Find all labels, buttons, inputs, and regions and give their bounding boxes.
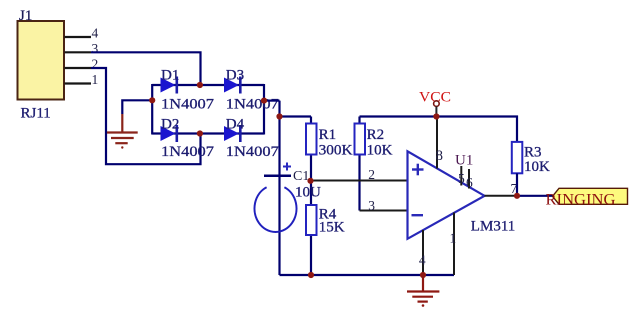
- pin 7 output wire: [485, 181, 553, 196]
- wire R2 bottom to inverting input: [358, 155, 360, 211]
- svg-text:RJ11: RJ11: [21, 106, 51, 122]
- junction node bridge bottom: [197, 130, 203, 136]
- svg-text:10K: 10K: [367, 143, 393, 159]
- pin 4 of U1: [419, 230, 426, 275]
- svg-text:4: 4: [92, 26, 99, 41]
- pin 5 of U1: [458, 166, 465, 186]
- svg-text:10K: 10K: [524, 159, 550, 175]
- junction node R1 top tee: [276, 113, 282, 119]
- capacitor C1: [255, 163, 321, 232]
- svg-text:1: 1: [450, 231, 457, 246]
- op-amp U1 LM311 triangle: [408, 151, 516, 239]
- svg-text:LM311: LM311: [471, 219, 516, 235]
- pin 8 of U1: [436, 117, 444, 169]
- svg-text:D3: D3: [226, 68, 244, 84]
- VCC power port: [419, 90, 451, 117]
- resistor R4: [306, 205, 345, 235]
- wire R3 bottom stub: [516, 173, 518, 196]
- junction node bridge top: [197, 82, 203, 88]
- svg-text:1N4007: 1N4007: [161, 96, 215, 112]
- pin 4 of J1: [65, 26, 99, 41]
- pin 3 of J1: [65, 41, 99, 56]
- svg-text:VCC: VCC: [419, 90, 451, 106]
- wire pin3 net to bridge top: [91, 52, 201, 85]
- wire bridge top row: [152, 84, 264, 86]
- svg-text:D1: D1: [161, 68, 179, 84]
- wire bridge right bus: [263, 84, 265, 135]
- resistor R3: [512, 142, 550, 175]
- wire bridge left bus: [151, 84, 153, 135]
- svg-text:15K: 15K: [319, 219, 345, 235]
- port RINGING flag: [546, 188, 628, 208]
- wire R1 top stub: [310, 117, 312, 124]
- svg-text:D2: D2: [161, 117, 179, 133]
- svg-text:R2: R2: [367, 127, 385, 143]
- resistor R2: [355, 124, 393, 159]
- svg-text:1: 1: [92, 72, 99, 87]
- pin 1 of J1: [65, 72, 99, 87]
- svg-text:D4: D4: [226, 117, 245, 133]
- wire bridge output to C1 and rail: [264, 101, 311, 275]
- wire bottom rail: [280, 274, 455, 276]
- svg-text:R1: R1: [319, 127, 337, 143]
- wire VCC rail: [360, 117, 518, 142]
- svg-text:4: 4: [419, 253, 426, 268]
- pin 2 wire to non-inverting input: [311, 167, 407, 182]
- junction node bridge right: [261, 98, 267, 104]
- diode D4: [224, 117, 279, 161]
- junction node R1 R4 divider: [307, 178, 313, 184]
- svg-text:10U: 10U: [295, 185, 321, 201]
- junction node bridge left: [149, 97, 155, 103]
- diode D2: [161, 117, 215, 161]
- svg-text:3: 3: [92, 41, 99, 56]
- resistor R1: [306, 124, 353, 159]
- svg-text:RINGING: RINGING: [546, 192, 616, 209]
- wire R4 bottom to rail: [310, 235, 312, 275]
- svg-text:U1: U1: [455, 153, 473, 169]
- junction node R4 bottom rail: [308, 272, 314, 278]
- ground left: [107, 114, 138, 149]
- wire R2 top stub: [358, 117, 360, 124]
- wire bridge bottom row: [152, 132, 264, 134]
- wire R1 to R4: [310, 155, 312, 206]
- pin 3 wire to inverting input: [360, 198, 408, 213]
- svg-text:6: 6: [466, 175, 473, 190]
- wire pin2 net to bridge bottom: [91, 68, 201, 164]
- junction node output R3: [514, 193, 520, 199]
- junction node ground rail: [420, 272, 426, 278]
- svg-text:J1: J1: [19, 8, 32, 24]
- svg-text:2: 2: [368, 167, 375, 182]
- svg-text:8: 8: [436, 148, 444, 164]
- svg-text:1N4007: 1N4007: [226, 144, 280, 160]
- svg-text:300K: 300K: [319, 143, 353, 159]
- pin 1 of U1: [450, 213, 457, 276]
- svg-text:1N4007: 1N4007: [161, 144, 215, 160]
- svg-text:5: 5: [458, 171, 465, 186]
- svg-text:C1: C1: [293, 169, 309, 184]
- pin 6 of U1: [466, 169, 473, 190]
- pin 2 of J1: [65, 56, 99, 71]
- diode D3: [224, 68, 279, 113]
- svg-text:3: 3: [368, 198, 375, 213]
- junction node VCC rail: [433, 113, 439, 119]
- ground right: [407, 275, 439, 307]
- wire bridge left to ground: [122, 100, 152, 114]
- diode D1: [161, 68, 215, 113]
- svg-text:1N4007: 1N4007: [226, 96, 280, 112]
- connector J1 RJ11 body: [18, 8, 65, 122]
